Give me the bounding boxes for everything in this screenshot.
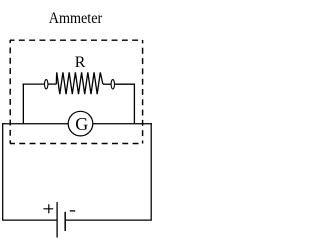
wire: main horizontal wire through galvanometer bbox=[2, 123, 152, 125]
wire: right stub from resistor down to main node bbox=[114, 84, 135, 124]
resistor R zigzag element bbox=[56, 72, 103, 94]
wire: lead from zigzag to right bubble bbox=[103, 83, 111, 85]
galvanometer G body circle bbox=[68, 111, 93, 136]
battery positive plate (long) bbox=[56, 202, 58, 238]
svg-text:Ammeter: Ammeter bbox=[49, 10, 103, 27]
battery negative plate (short) bbox=[64, 212, 66, 231]
ammeter dashed enclosure box: bottom edge bbox=[10, 143, 143, 145]
ammeter dashed enclosure box: top edge bbox=[10, 39, 143, 41]
label - (negative terminal) bbox=[70, 210, 75, 212]
wire: right branch down to battery negative bbox=[66, 123, 152, 220]
ammeter dashed enclosure box: right edge bbox=[142, 40, 144, 144]
wire: left stub from resistor down to main node bbox=[23, 84, 45, 124]
wire: lead from left bubble to zigzag bbox=[48, 83, 57, 85]
wire: left branch down to battery positive bbox=[2, 123, 56, 220]
svg-text:R: R bbox=[75, 54, 86, 71]
resistor R left terminal bubble bbox=[45, 80, 48, 89]
svg-text:G: G bbox=[75, 114, 88, 134]
ammeter dashed enclosure box: left edge bbox=[9, 40, 11, 144]
label + (positive terminal) bbox=[43, 204, 53, 213]
resistor R right terminal bubble bbox=[111, 80, 114, 89]
